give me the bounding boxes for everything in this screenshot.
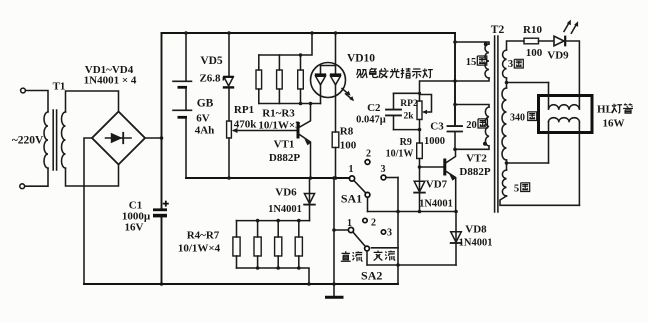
svg-text:D882P: D882P (459, 166, 490, 178)
wire R10 to VD9 (539, 40, 554, 42)
lamp HL tube box (539, 96, 593, 133)
battery GB wire lower (185, 119, 187, 179)
zener diode VD5 symbol (224, 77, 233, 86)
SA2 blade (353, 232, 365, 246)
SA2 blade stub down (366, 251, 368, 265)
svg-text:VD5: VD5 (200, 55, 223, 67)
wire T1 secondary bottom to bridge bottom (66, 165, 119, 186)
wire SA1 contact3 to x398 (386, 177, 398, 179)
node R5 top (256, 219, 260, 223)
svg-text:1: 1 (349, 164, 354, 175)
wire C2 bottom to RP2 bottom (394, 129, 420, 131)
wire 20quan bottom branch (455, 146, 489, 149)
node VD8 top (454, 210, 458, 214)
node battery-toprail (184, 31, 188, 35)
bridge diode symbol (106, 137, 132, 139)
resistor R9 body (417, 143, 423, 159)
lamp top filament coil (549, 105, 580, 109)
node x334-y230 (332, 228, 336, 232)
node VD7-y211 (418, 210, 422, 214)
resistor R2 (278, 55, 280, 70)
svg-text:Z6.8: Z6.8 (199, 73, 221, 85)
potentiometer RP1 body (227, 121, 232, 138)
svg-text:3: 3 (381, 164, 386, 175)
svg-text:1N4001 × 4: 1N4001 × 4 (84, 75, 137, 87)
diode VD6 (309, 178, 311, 221)
lamp bottom-right stem (578, 122, 580, 206)
wire VT2 emitter bus y211 (368, 211, 457, 213)
svg-text:100: 100 (340, 140, 357, 152)
svg-text:1: 1 (347, 218, 352, 229)
resistor R10 body (524, 38, 539, 44)
svg-text:100: 100 (526, 47, 543, 59)
wire RP1 bottom (228, 138, 230, 178)
label shuangse-fazhishideng (357, 70, 368, 78)
node x398-y211 (396, 210, 400, 214)
switch SA1 pole contact (349, 176, 354, 181)
wire R9 bottom to base node (419, 159, 421, 168)
wire RP2 to R9 (419, 120, 421, 144)
node 15quan top feed (453, 40, 457, 44)
switch SA2 pole contact (348, 227, 353, 232)
T2 secondary winding 3quan (503, 50, 507, 78)
svg-text:R4~R7: R4~R7 (187, 230, 220, 242)
wire x334 vertical (333, 178, 335, 284)
node 20quan top feed (453, 103, 457, 107)
node R6 top (276, 219, 280, 223)
svg-text:2: 2 (366, 149, 371, 160)
T2 secondary winding 340quan (502, 88, 507, 160)
svg-text:SA1: SA1 (341, 192, 362, 206)
wire x398 vertical (397, 178, 399, 285)
svg-text:16V: 16V (125, 222, 144, 234)
svg-text:SA2: SA2 (361, 269, 382, 283)
svg-text:D882P: D882P (269, 152, 300, 164)
T2 secondary winding 5quan (502, 170, 506, 196)
potentiometer RP2 body (417, 101, 422, 120)
VD10 left diode (320, 66, 322, 75)
node collector-20quan bottom (453, 148, 457, 152)
node base-VD7 (418, 165, 422, 169)
resistors R4~R7 bottom bus (237, 268, 310, 284)
wire B+ rail x455 upper (454, 33, 456, 125)
polarity dot 15quan (484, 42, 488, 46)
svg-text:RP1: RP1 (234, 104, 254, 116)
junction 3quan-340quan (506, 78, 508, 88)
svg-text:4Ah: 4Ah (195, 125, 215, 137)
node R1R3bus-toprail (310, 31, 314, 35)
T2 primary winding 20quan (485, 107, 489, 146)
svg-text:6V: 6V (196, 113, 210, 125)
transformer T1 primary winding (44, 112, 48, 168)
node x334-rail (332, 282, 336, 286)
battery GB plates (173, 80, 192, 82)
resistor R5 (257, 221, 259, 237)
resistors R4~R7 top bus (237, 220, 310, 222)
node rail-bottom (160, 282, 164, 286)
VD9 emission arrows (564, 22, 569, 31)
svg-text:R8: R8 (340, 126, 354, 138)
wire left rail lower segment (161, 217, 163, 285)
wire feedback winding to RP2 (420, 78, 490, 101)
svg-text:HL: HL (597, 104, 613, 116)
resistors R1~R3 bottom bus (259, 103, 321, 105)
svg-text:VD9: VD9 (547, 50, 569, 62)
SA1 blade stub down (367, 197, 369, 211)
svg-text:470k: 470k (234, 119, 258, 131)
svg-text:10/1W×3: 10/1W×3 (258, 120, 301, 132)
VD10 emission arrows (342, 89, 349, 95)
svg-text:20: 20 (466, 120, 477, 131)
wire 5quan bottom to lamp bottom-right (500, 196, 579, 205)
LED VD10 circle (311, 63, 346, 98)
svg-text:3: 3 (387, 228, 392, 239)
wire top rail (162, 32, 456, 34)
svg-text:10/1W×4: 10/1W×4 (178, 243, 221, 255)
svg-text:VD10: VD10 (347, 53, 375, 65)
node VT1 emitter y178 (309, 176, 313, 180)
node R3 bottom (299, 102, 303, 106)
RP1 wiper arrow (232, 128, 238, 133)
node R7 bottom (297, 266, 301, 270)
svg-text:VT2: VT2 (466, 153, 487, 165)
svg-text:10/1W: 10/1W (386, 149, 414, 160)
zener diode VD5 wire upper (228, 33, 230, 77)
node R5 bottom (256, 266, 260, 270)
SA2 contact 3 (381, 230, 385, 234)
transformer T1 secondary winding (62, 112, 66, 168)
transistor VT2 (443, 159, 446, 176)
svg-text:0.047µ: 0.047µ (356, 114, 386, 125)
wire toprail to VD10 (335, 33, 337, 66)
transistor VT1 (297, 122, 300, 139)
svg-text:C2: C2 (367, 102, 381, 114)
VD10 internal bus (321, 65, 336, 67)
resistors R1~R3 top bus (259, 33, 312, 55)
wire C2 top to RP2 top (394, 92, 420, 94)
transformer T1 core (53, 110, 56, 170)
ac input terminal top (21, 88, 26, 93)
wire bridge left vertex down to bottom rail (84, 138, 92, 284)
svg-text:2k: 2k (403, 112, 414, 122)
T2 primary winding 15quan (485, 44, 489, 78)
resistor R8 (332, 132, 339, 148)
node feedback crossing (453, 79, 457, 83)
node RP1-y178 (227, 176, 231, 180)
node x398-y264 (396, 263, 400, 267)
svg-text:1N4001: 1N4001 (419, 199, 453, 210)
node bridge-rail (160, 136, 164, 140)
battery GB wire upper (185, 33, 187, 81)
SA1 blade (354, 180, 366, 193)
wire bridge right vertex to left rail (145, 137, 162, 139)
svg-text:1N4001: 1N4001 (459, 238, 493, 249)
bridge rectifier VD1~VD4 diamond (92, 112, 145, 165)
svg-text:T2: T2 (491, 24, 505, 36)
diode VD8 (455, 212, 457, 266)
svg-text:1000: 1000 (424, 136, 445, 147)
label jiaoliu AC (374, 251, 383, 261)
wire RP1 wiper to VT1 base (234, 130, 298, 132)
resistor R4 (236, 221, 238, 237)
wire emitter line y178 (186, 177, 349, 179)
wire 15quan top branch (455, 42, 489, 44)
resistor R1 (258, 55, 260, 70)
wire base node to VT2 base (420, 166, 445, 168)
resistor R3 (300, 55, 302, 70)
box around jiaoliu (372, 247, 399, 249)
plus sign C1 (163, 201, 169, 207)
svg-text:RP2: RP2 (400, 99, 418, 109)
svg-text:16W: 16W (603, 118, 625, 130)
resistor R6 (277, 221, 279, 237)
svg-text:1N4001: 1N4001 (268, 204, 302, 215)
svg-text:C3: C3 (430, 121, 444, 133)
RP2 wiper loop (420, 95, 432, 113)
svg-text:VD6: VD6 (275, 187, 297, 199)
ac input terminal bottom (20, 184, 25, 189)
svg-text:VD7: VD7 (426, 179, 448, 191)
junction 340quan-5quan (506, 160, 508, 170)
wire 3quan top to R10 (507, 41, 525, 50)
svg-text:GB: GB (197, 98, 214, 110)
wire to lamp bottom-left filament (507, 162, 549, 164)
diode VD7 (419, 167, 421, 212)
node R8-y178 (334, 176, 338, 180)
SA2 contact 2 (363, 218, 367, 222)
svg-text:~220V: ~220V (12, 135, 44, 147)
wire to lamp top-left filament (507, 82, 549, 84)
capacitor C3 (448, 126, 463, 131)
SA1 blade end contact (365, 192, 370, 197)
capacitor C2 (393, 93, 395, 109)
wire bottom rail (84, 283, 398, 285)
ground symbol (333, 284, 335, 296)
wire C3 bottom to collector node (454, 132, 456, 149)
polarity dot 20quan (483, 142, 487, 146)
wire VD9 to lamp (565, 41, 579, 109)
wire T1 primary bottom to terminal (25, 169, 48, 187)
svg-text:T1: T1 (53, 81, 66, 93)
capacitor C1 (153, 208, 167, 211)
node x334-y178 (332, 176, 336, 180)
wire terminal-top to T1 primary (26, 91, 48, 112)
wire 20quan top branch (455, 105, 489, 108)
wire T1 secondary top to bridge top (66, 91, 119, 112)
VD10 right diode (335, 66, 337, 75)
node RP2 bottom (418, 128, 422, 132)
wire left rail upper segment (161, 33, 163, 209)
lamp top filament left stem (548, 83, 550, 110)
lamp bottom-left stem (548, 122, 550, 164)
wire VD8 bottom to SA2 (367, 264, 456, 266)
node R3 top (299, 53, 303, 57)
node R7 top (297, 219, 301, 223)
node VD10-toprail (334, 31, 338, 35)
lamp bottom filament (549, 118, 580, 122)
LED VD9 (554, 36, 564, 46)
node VT1 collector (309, 102, 313, 106)
resistor R7 (298, 221, 300, 237)
node VD5-toprail (227, 31, 231, 35)
svg-text:3: 3 (508, 59, 513, 70)
svg-text:VD8: VD8 (465, 224, 487, 236)
wire VD5 to RP1 (228, 87, 230, 121)
transformer T2 core (495, 36, 498, 212)
svg-text:R1~R3: R1~R3 (262, 108, 295, 120)
svg-text:R9: R9 (400, 137, 412, 148)
svg-text:2: 2 (371, 218, 376, 229)
svg-text:VT1: VT1 (274, 139, 295, 151)
SA1 contact 3 (381, 175, 386, 180)
wire SA2 pole (334, 229, 348, 231)
svg-text:340: 340 (510, 113, 525, 124)
node R4R7-rail (307, 282, 311, 286)
node R6 bottom (276, 266, 280, 270)
label zhiliu DC (341, 251, 351, 261)
SA1 contact 2 (365, 160, 370, 165)
svg-text:R10: R10 (523, 24, 542, 36)
SA2 blade end contact (365, 246, 370, 251)
svg-text:5: 5 (514, 184, 519, 195)
svg-text:15: 15 (466, 57, 477, 68)
